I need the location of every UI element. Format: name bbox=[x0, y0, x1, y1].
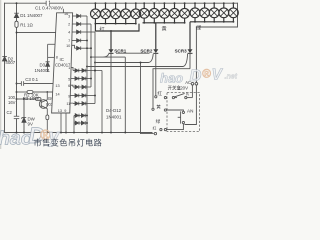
wire SCR3 cathode bbox=[189, 53, 191, 68]
wire DC node bbox=[17, 99, 25, 133]
wire SCR2 anode bbox=[155, 23, 157, 50]
lamp H12 bbox=[204, 3, 206, 8]
svg-text:.net: .net bbox=[225, 74, 238, 81]
svg-text:红: 红 bbox=[100, 25, 105, 33]
lamp H15 bbox=[232, 3, 234, 8]
svg-text:R1 1Ω: R1 1Ω bbox=[20, 22, 33, 27]
resistor R4 emitter bbox=[46, 92, 49, 133]
lamp H8 bbox=[163, 3, 165, 8]
svg-text:8: 8 bbox=[56, 56, 58, 60]
wire to rail x125 bbox=[124, 57, 126, 132]
svg-text:13: 13 bbox=[55, 84, 59, 88]
svg-text:4: 4 bbox=[68, 31, 70, 35]
svg-text:红: 红 bbox=[157, 90, 162, 96]
lamp H13 bbox=[213, 3, 215, 8]
wire bottom rail bbox=[5, 132, 153, 134]
diode D3 bbox=[46, 62, 50, 72]
svg-text:2: 2 bbox=[68, 23, 70, 27]
diode D6 bbox=[77, 30, 81, 34]
wire horizontal y53 bbox=[116, 52, 150, 54]
gate bus B1 bbox=[86, 16, 88, 133]
svg-text:220V: 220V bbox=[178, 85, 188, 90]
lamp H3 bbox=[115, 3, 117, 9]
diode D12 bbox=[75, 102, 78, 106]
lamps group1 bbox=[91, 2, 141, 49]
lamp H14 bbox=[223, 3, 225, 8]
wire pin11 to D3 bbox=[48, 44, 56, 61]
switch box outline (dashed) bbox=[167, 93, 200, 132]
wire SCR1 cathode bbox=[110, 53, 112, 132]
wire SCR1 anode bbox=[110, 31, 112, 49]
watermark bottom left bbox=[0, 123, 61, 150]
svg-text:1N4001: 1N4001 bbox=[106, 115, 122, 120]
lamp H9 bbox=[174, 3, 176, 8]
wire pin15 bbox=[16, 32, 56, 34]
svg-text:13: 13 bbox=[58, 109, 62, 113]
wire left rail bbox=[4, 3, 6, 132]
svg-text:C1 0.47/400V: C1 0.47/400V bbox=[35, 6, 64, 11]
diode D7 bbox=[77, 39, 81, 43]
svg-text:11: 11 bbox=[66, 102, 70, 106]
diode D10 bbox=[75, 77, 78, 81]
wire SCR3 return bbox=[153, 69, 190, 108]
svg-text:C2: C2 bbox=[7, 110, 13, 115]
lamp H2 bbox=[105, 3, 107, 9]
IC CD4017 box bbox=[52, 13, 73, 113]
diode (second in row) bbox=[82, 102, 85, 106]
svg-text:V: V bbox=[212, 67, 224, 84]
wire AC drop bbox=[195, 27, 197, 82]
svg-text:IC: IC bbox=[60, 57, 64, 62]
wire SCR3 gate bbox=[87, 66, 183, 68]
svg-text:9: 9 bbox=[64, 109, 66, 113]
svg-text:D4-D12: D4-D12 bbox=[106, 108, 122, 113]
svg-text:5: 5 bbox=[68, 77, 70, 81]
diode (second in row) bbox=[82, 94, 85, 98]
svg-text:1N4001: 1N4001 bbox=[35, 68, 51, 73]
scan edge shading bbox=[0, 0, 1, 149]
wire group1 drop loop bbox=[95, 24, 139, 31]
diode D9 bbox=[75, 69, 78, 73]
resistor R3 bbox=[17, 98, 42, 101]
diode D11 bbox=[75, 85, 78, 89]
svg-text:6: 6 bbox=[68, 84, 70, 88]
diode (second in row) bbox=[82, 69, 85, 73]
matrix diodes D4-D12 bbox=[70, 14, 102, 132]
transistor BG 9014 bbox=[39, 100, 48, 109]
wire group2 bus bbox=[143, 22, 185, 24]
capacitor C1 bbox=[46, 1, 49, 6]
lamp H11 bbox=[194, 3, 196, 8]
svg-text:hao: hao bbox=[160, 71, 183, 86]
switch K blade bbox=[174, 93, 184, 97]
lamp H10 bbox=[184, 3, 186, 8]
diode (second in row) bbox=[81, 114, 84, 118]
pushbutton AN bbox=[182, 122, 184, 124]
wire top AC bus bbox=[5, 2, 238, 4]
svg-text:SCR2: SCR2 bbox=[140, 49, 153, 54]
pin 16 stub bbox=[62, 9, 64, 13]
lamps group3 bbox=[190, 2, 238, 49]
diode (second in row) bbox=[82, 85, 85, 89]
svg-text:市售变色吊灯电路: 市售变色吊灯电路 bbox=[34, 138, 103, 148]
SCR2 bbox=[95, 49, 158, 135]
resistor R1 bbox=[15, 21, 18, 27]
SCR1 bbox=[91, 49, 150, 134]
lamp H4 bbox=[125, 3, 127, 9]
wire SCR2 cathode bbox=[155, 53, 157, 95]
zener DW bbox=[22, 118, 26, 123]
svg-text:C3 0.1: C3 0.1 bbox=[25, 77, 38, 82]
wire to terminal x140 bbox=[141, 63, 154, 134]
svg-text:黄: 黄 bbox=[156, 103, 161, 110]
diode (second in row) bbox=[81, 121, 84, 125]
capacitor C2 electrolytic bbox=[14, 116, 19, 118]
diode D2 bbox=[2, 56, 7, 61]
svg-text:9: 9 bbox=[68, 94, 70, 98]
wires bottom pins 13,9 bbox=[61, 113, 66, 133]
junction dots left branch bbox=[16, 2, 103, 133]
svg-text:D1 1N4007: D1 1N4007 bbox=[20, 13, 43, 18]
wire SCR2 gate bbox=[95, 62, 149, 64]
wire SCR3 anode bbox=[189, 22, 191, 50]
svg-text:10: 10 bbox=[66, 44, 70, 48]
lamp H7 bbox=[153, 3, 155, 8]
wire supply branch x16.5 bbox=[16, 3, 18, 132]
svg-text:AN: AN bbox=[187, 109, 193, 114]
svg-text:16V: 16V bbox=[8, 100, 16, 105]
diode D5 bbox=[77, 22, 81, 26]
svg-text:D3: D3 bbox=[40, 63, 46, 68]
svg-text:4007: 4007 bbox=[5, 60, 15, 65]
gate bus B2 bbox=[90, 24, 92, 87]
terminal red pair bbox=[164, 97, 166, 99]
gate bus B3 bbox=[94, 32, 96, 104]
svg-text:SCR3: SCR3 bbox=[175, 49, 188, 54]
svg-text:绿: 绿 bbox=[156, 118, 161, 124]
resistor R2 with wire pin14 bbox=[17, 91, 55, 94]
wire bus to rail bbox=[101, 71, 103, 133]
terminal green pair bbox=[160, 129, 162, 131]
diode D12 bbox=[75, 121, 78, 125]
junction dots matrix bbox=[86, 40, 88, 42]
diode D4 bbox=[77, 14, 81, 18]
svg-text:R3 100K: R3 100K bbox=[23, 96, 40, 101]
svg-text:14: 14 bbox=[55, 92, 59, 96]
capacitor C3 with wire pin15 bbox=[17, 81, 55, 86]
wire group3 bus bbox=[190, 21, 233, 23]
lamp H1 bbox=[94, 3, 96, 9]
lamps group2 bbox=[139, 2, 189, 49]
diode D1 bbox=[14, 13, 19, 17]
svg-text:3: 3 bbox=[68, 15, 70, 19]
svg-text:红: 红 bbox=[153, 126, 157, 131]
switch box bbox=[156, 80, 200, 132]
lamp H5 bbox=[135, 3, 137, 9]
svg-text:1: 1 bbox=[68, 66, 70, 70]
diode (second in row) bbox=[82, 77, 85, 81]
diode D8 bbox=[77, 46, 81, 50]
svg-text:黄: 黄 bbox=[162, 24, 167, 32]
svg-text:绿: 绿 bbox=[196, 24, 202, 32]
SCR3 bbox=[87, 49, 193, 111]
terminal yellow bbox=[164, 109, 166, 111]
wire AC inner bbox=[185, 85, 197, 125]
wire group1 bus bbox=[95, 23, 135, 25]
diode D12 bbox=[75, 94, 78, 98]
terminal AC pair bbox=[191, 82, 194, 85]
diode D12 bbox=[75, 114, 78, 118]
wire SCR1 gate bbox=[91, 56, 125, 58]
lamp H6 bbox=[143, 3, 145, 8]
watermark right bbox=[160, 67, 238, 86]
pin labels right bbox=[66, 15, 70, 106]
svg-text:7: 7 bbox=[68, 39, 70, 43]
svg-text:D: D bbox=[190, 67, 202, 85]
wire right rail bbox=[196, 3, 237, 27]
svg-text:®: ® bbox=[202, 67, 211, 81]
